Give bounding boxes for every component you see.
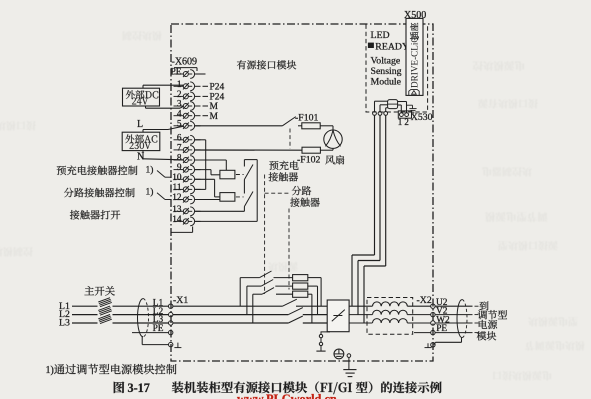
- main switch pole L3: [98, 315, 110, 319]
- svg-text:READY: READY: [375, 41, 409, 52]
- svg-text:www.PLCworld.cn: www.PLCworld.cn: [237, 392, 337, 399]
- wire ferrite to X530:2: [398, 101, 407, 103]
- label 接触器打开: [70, 210, 120, 219]
- wire F101 to fan: [320, 125, 333, 127]
- wire mains L3: [72, 322, 98, 324]
- wire mains L2: [72, 314, 98, 316]
- external DC 24V box: [123, 88, 160, 106]
- link dash to 分路 label: [265, 192, 289, 194]
- svg-text:1): 1): [146, 165, 154, 176]
- active interface module enclosure (dash-dot border): [171, 24, 433, 361]
- R1 return to bus L1: [308, 277, 321, 279]
- voltage sensing module box (dashed): [366, 25, 428, 113]
- svg-text:Voltage: Voltage: [371, 56, 401, 67]
- label 到: [479, 301, 488, 310]
- wire fan to F102: [332, 148, 334, 150]
- wire X609:8 to coil K1: [195, 159, 227, 161]
- fan switch contact: [282, 117, 295, 126]
- svg-text:-X1: -X1: [173, 295, 188, 306]
- label 风扇: [325, 155, 344, 164]
- module boundary terminals: [373, 112, 377, 116]
- label P24 terminal 2: [203, 95, 209, 97]
- earth conductor: [348, 357, 350, 369]
- svg-text:PE: PE: [153, 324, 164, 334]
- caption 图 3-17: [114, 382, 125, 394]
- svg-text:M: M: [210, 112, 219, 122]
- PE wire inside: [414, 332, 431, 334]
- precharge resistor R2: [293, 283, 308, 289]
- output wires: [435, 305, 472, 307]
- precharge linkage (dash-dot): [264, 175, 266, 295]
- wire X609:10 to coil K2: [195, 178, 215, 180]
- wire mains L1: [72, 305, 98, 307]
- LED indicator: [368, 43, 373, 48]
- sense wire phase 1: [351, 255, 353, 306]
- svg-text:1): 1): [146, 187, 154, 198]
- main switch pole L1: [98, 298, 110, 302]
- label 预充电接触器控制 1): [57, 166, 138, 176]
- svg-text:9: 9: [177, 163, 182, 173]
- earth symbol: [343, 369, 356, 371]
- aux contact chain frame: [244, 159, 257, 161]
- precharge riser 3: [252, 294, 254, 323]
- PE conductor stub: [132, 332, 169, 334]
- link K2 coil to contact (dashed): [236, 196, 244, 198]
- svg-text:11: 11: [173, 183, 182, 193]
- svg-text:-X609: -X609: [172, 57, 198, 68]
- svg-text:13: 13: [172, 205, 182, 215]
- precharge riser 2: [246, 286, 248, 315]
- reactor winding phase 2: [373, 310, 408, 314]
- X609 strip bottom bracket: [172, 231, 193, 233]
- PE stub wire: [195, 73, 206, 75]
- DRIVE-CLiQ socket X500: [406, 18, 423, 95]
- hook to terminals 11/12: [157, 193, 165, 200]
- precharge contactor coil K1: [220, 170, 235, 179]
- svg-text:-F102: -F102: [297, 154, 321, 165]
- label 分路接触器: [292, 186, 311, 195]
- wire X609:12 to coil K2: [195, 199, 220, 201]
- svg-text:P24: P24: [210, 83, 225, 93]
- fan M1: [324, 130, 342, 148]
- svg-text:1: 1: [398, 117, 403, 127]
- svg-text:PE: PE: [171, 68, 182, 78]
- link K1 coil to contact (dashed): [236, 174, 244, 176]
- wire X609:11 bus: [195, 188, 206, 190]
- line reactor box (dashed): [367, 298, 413, 335]
- wire DC+ to X609:1: [142, 85, 144, 88]
- bypass linkage (dash-dot): [288, 209, 290, 290]
- precharge contact 1: [240, 277, 259, 279]
- svg-text:X530: X530: [411, 112, 433, 123]
- precharge contact 2: [247, 285, 261, 287]
- X609 strip top bracket: [174, 67, 197, 69]
- svg-text:14: 14: [172, 215, 182, 225]
- cable shield X1 (ellipse): [138, 299, 143, 337]
- reactor winding phase 1: [373, 302, 408, 306]
- label M terminal 3: [203, 105, 209, 107]
- svg-text:-F101: -F101: [295, 113, 319, 124]
- ground mark at X1: [177, 343, 179, 348]
- svg-text:L3: L3: [59, 318, 70, 329]
- wire X609:13 to aux contact: [195, 210, 245, 212]
- precharge contact 3: [253, 293, 262, 295]
- svg-text:2: 2: [404, 117, 409, 127]
- cable shield X2 (ellipse): [457, 300, 462, 338]
- earth terminal on frame: [347, 354, 351, 358]
- fuse F102: [302, 147, 320, 153]
- precharge resistor R1: [293, 275, 308, 281]
- converter unit U1: [327, 300, 349, 332]
- sense wire phase 2: [357, 261, 359, 315]
- svg-text:12: 12: [172, 193, 182, 203]
- wire DC- to X609:3: [145, 106, 147, 108]
- external AC 230V box: [122, 132, 160, 150]
- bus L1 with bypass contact: [173, 305, 283, 307]
- ground mark at X2: [427, 343, 429, 347]
- shield drain X2: [461, 338, 463, 343]
- R3 return to bus L3: [308, 293, 312, 295]
- svg-text:-X2: -X2: [417, 295, 432, 306]
- svg-text:6: 6: [177, 133, 182, 143]
- label 主开关 (main switch): [84, 286, 114, 295]
- precharge riser 1: [239, 278, 241, 307]
- wire ferrite to X530:1: [398, 104, 402, 106]
- wire X609:14 to aux contact: [195, 220, 258, 222]
- label P24 terminal 1: [203, 85, 209, 87]
- precharge resistor R3: [293, 291, 308, 297]
- wire F102 to X609:7: [195, 149, 303, 151]
- fan switch link (dashed): [289, 129, 291, 149]
- protective earth symbol: [334, 349, 344, 359]
- connector X530: [398, 111, 411, 118]
- hook to terminals 9/10: [157, 171, 165, 178]
- sense wires to ferrite: [374, 101, 376, 111]
- wire X609:6 drop bus: [195, 139, 206, 141]
- main switch pole L2: [98, 306, 110, 310]
- svg-text:4: 4: [177, 109, 182, 119]
- reactor winding phase 3: [373, 319, 408, 323]
- svg-text:P24: P24: [210, 93, 225, 103]
- svg-text:1): 1): [46, 365, 54, 376]
- svg-text:10: 10: [172, 173, 182, 183]
- label 预充电接触器: [269, 161, 298, 170]
- svg-text:Module: Module: [371, 77, 402, 88]
- svg-text:M: M: [210, 102, 219, 112]
- aux contact blade K2: [244, 192, 253, 207]
- svg-text:Sensing: Sensing: [371, 66, 402, 77]
- ferrite sleeve: [388, 100, 398, 109]
- svg-text:8: 8: [177, 154, 182, 164]
- label 电源: [479, 320, 497, 329]
- bypass contactor coil K2: [220, 193, 235, 202]
- module title 有源接口模块: [237, 60, 296, 69]
- sense wire phase 3: [363, 266, 365, 323]
- label 分路接触器控制 1): [64, 188, 135, 197]
- converter output lines: [349, 305, 372, 307]
- svg-text:DRIVE-CLiQ: DRIVE-CLiQ: [410, 36, 420, 88]
- wire X609:5 to fan switch: [195, 125, 283, 127]
- wire L to X609:5: [142, 130, 144, 133]
- ground at X530: [407, 104, 413, 106]
- shield drain to ground terminal: [141, 337, 143, 345]
- terminal block X2: [431, 304, 435, 308]
- bus L3 with bypass contact: [173, 322, 288, 324]
- label 调节型: [478, 310, 507, 319]
- svg-text:3-17: 3-17: [128, 381, 150, 395]
- converter ground leg: [329, 331, 331, 333]
- R2 return to bus L2: [308, 285, 318, 287]
- aux contact blade K1: [244, 165, 253, 180]
- wire X609:9 to coil K1: [195, 169, 212, 171]
- label M terminal 4: [203, 115, 209, 117]
- svg-text:LED: LED: [371, 30, 390, 41]
- fuse F101: [302, 123, 320, 129]
- wire N to X609:8: [142, 151, 144, 159]
- label 模块: [477, 331, 496, 340]
- svg-text:2: 2: [177, 90, 182, 100]
- svg-text:7: 7: [177, 144, 182, 154]
- svg-text:L: L: [137, 119, 143, 130]
- bus L2 with bypass contact: [173, 314, 288, 316]
- label link dashes: [475, 305, 479, 307]
